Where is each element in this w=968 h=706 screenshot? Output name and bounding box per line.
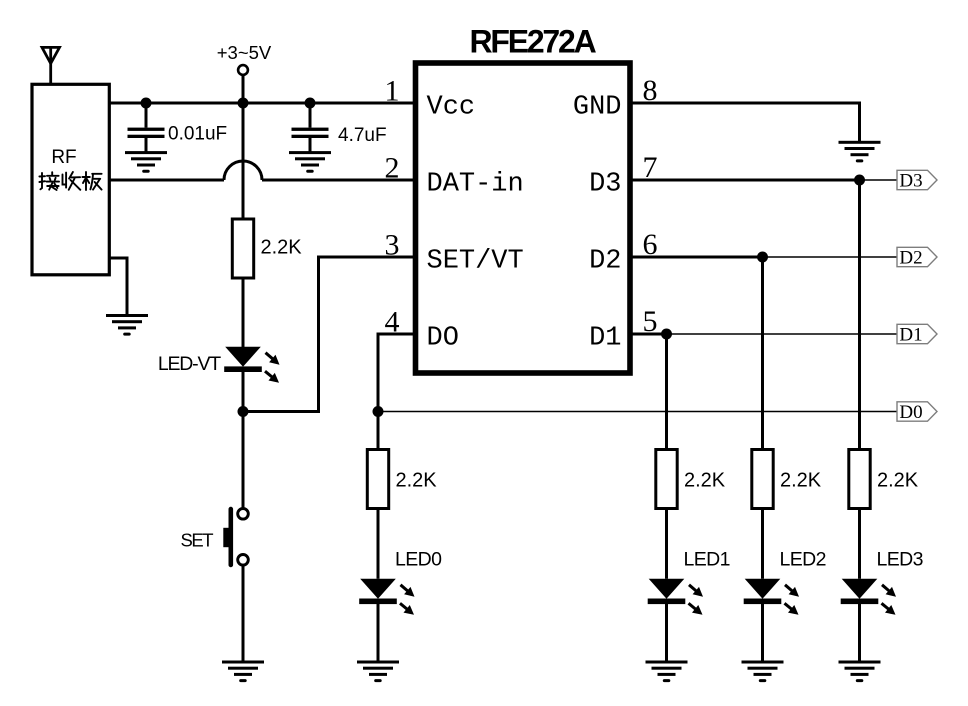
svg-text:D1: D1 [589,324,621,354]
svg-text:SET/VT: SET/VT [427,247,524,277]
wire: RF board to its ground [109,258,127,315]
svg-text:DO: DO [427,324,459,354]
ground (under RF board) [106,314,148,336]
wire: pin 5 to D1 node [630,333,667,336]
wire: D1 node down to R3 [665,334,668,450]
LED LED-VT symbol [224,347,279,383]
svg-text:D3: D3 [899,171,922,192]
wire: GND drop down [858,102,861,142]
IC U1 RFE272A body [416,63,631,373]
node D1 junction [661,329,672,340]
RF receiver board box [32,84,109,274]
svg-text:RF: RF [51,147,76,168]
resistor R3 2.2K body [656,450,677,509]
wire: SET button to ground [242,565,245,660]
svg-text:LED3: LED3 [877,549,923,571]
junction on Vcc rail at supply [238,98,249,109]
wire: node A to SET button [242,412,245,509]
output tag D2 [897,247,937,268]
wire: rail to C1 top plate [145,103,148,128]
wire: hop to pin 2 DAT-in [262,179,416,182]
junction on Vcc rail at C1 [141,98,152,109]
svg-text:2: 2 [385,152,400,185]
output tag D3 [897,170,937,191]
capacitor C2 4.7uF plates [292,128,329,138]
LED LED2 symbol [744,579,799,615]
LED LED3 symbol [841,579,896,615]
wire: pin 4 D0 out and down [378,334,416,412]
pushbutton SET [223,507,248,567]
capacitor C1 0.01uF plates [128,128,165,138]
svg-text:D3: D3 [589,170,621,200]
wire: rail to C2 top plate [309,103,312,128]
output tag D0 [897,402,937,423]
node A junction (LED-VT / SET / SET-VT) [238,406,249,417]
wire: pin 7 to D3 node [630,179,860,182]
wire hop over supply drop [224,161,262,180]
ground (under LED1) [646,661,688,683]
wire: DAT from RF board to hop [109,179,224,182]
net line to D2 tag [763,256,898,258]
label 接收板 (hand-drawn glyphs) [39,172,101,190]
resistor R4 2.2K body [752,450,773,509]
svg-text:2.2K: 2.2K [261,237,303,259]
ground (under SET) [222,661,264,683]
wire: C1 bottom plate to ground [145,138,148,152]
wire: LED3 to ground [858,604,861,661]
svg-text:Vcc: Vcc [427,93,476,123]
resistor R1 2.2K body [232,219,253,278]
wire: R3 to LED1 [665,509,668,579]
svg-text:GND: GND [573,93,622,123]
wire: R4 to LED2 [761,509,764,579]
wire: R2 to LED0 [377,509,380,579]
resistor R2 2.2K body [367,450,388,509]
wire: Vcc rail (RF board to pin 1) [109,102,416,105]
node D0 junction [373,406,384,417]
wire: D3 node down to R5 [858,180,861,450]
wire: supply drop to R1 [242,103,245,219]
ground (under C1) [125,151,167,173]
antenna [42,47,60,84]
svg-text:D1: D1 [899,325,922,346]
svg-text:0.01uF: 0.01uF [168,124,227,145]
ground (under pin 8 GND) [839,141,881,163]
svg-text:SET: SET [181,530,214,551]
svg-text:D0: D0 [899,402,922,423]
node D2 junction [757,252,768,263]
svg-text:RFE272A: RFE272A [469,24,596,60]
svg-text:2.2K: 2.2K [877,470,919,492]
LED LED0 symbol [359,579,414,615]
wire: +3~5V terminal to Vcc rail [242,75,245,103]
output tag D1 [897,324,937,345]
svg-text:DAT-in: DAT-in [427,170,524,200]
ground (under LED2) [742,661,784,683]
wire: C2 bottom plate to ground [309,138,312,152]
svg-text:4.7uF: 4.7uF [338,125,387,146]
svg-text:LED1: LED1 [684,549,730,571]
svg-text:1: 1 [385,75,400,108]
svg-text:2.2K: 2.2K [396,470,438,492]
svg-text:LED-VT: LED-VT [158,353,221,375]
LED LED1 symbol [648,579,703,615]
wire: D0 node down to R2 [377,412,380,450]
junction on Vcc rail at C2 [305,98,316,109]
wire: R5 to LED3 [858,509,861,579]
wire: node A to pin 3 SET/VT [243,257,416,412]
ground (under LED3) [839,661,881,683]
svg-text:D2: D2 [589,247,621,277]
svg-text:D2: D2 [899,248,922,269]
resistor R5 2.2K body [849,450,870,509]
svg-text:+3~5V: +3~5V [217,42,272,63]
svg-text:2.2K: 2.2K [780,470,822,492]
svg-text:3: 3 [385,229,400,262]
svg-text:2.2K: 2.2K [684,470,726,492]
ground (under C2) [289,151,331,173]
wire: LED-VT to node A [242,372,245,412]
power terminal circle [238,65,248,75]
ground (under LED0) [357,661,399,683]
wire: LED2 to ground [761,604,764,661]
net line to D0 tag [378,411,897,413]
wire: D2 node down to R4 [761,257,764,450]
wire: LED1 to ground [665,604,668,661]
wire: R1 to LED-VT [242,278,245,347]
svg-text:LED0: LED0 [395,549,442,571]
node D3 junction [854,175,865,186]
wire: pin 6 to D2 node [630,256,763,259]
net line to D3 tag [860,179,898,181]
wire: pin 8 GND to ground drop [630,102,860,105]
wire: LED0 to ground [377,604,380,661]
net line to D1 tag [667,333,898,335]
svg-text:LED2: LED2 [780,549,826,571]
